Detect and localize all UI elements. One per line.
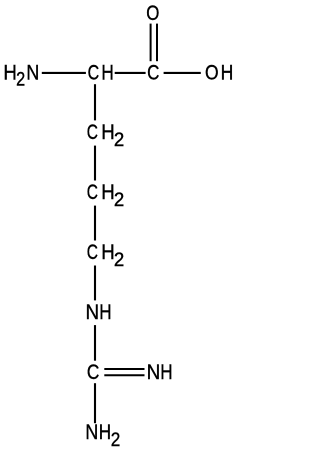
svg-text:C: C — [87, 120, 98, 144]
svg-text:C: C — [87, 180, 98, 204]
wire CH2-NH — [94, 266, 96, 301]
svg-text:H: H — [101, 181, 114, 205]
svg-text:O: O — [205, 61, 219, 85]
svg-text:2: 2 — [16, 68, 25, 89]
svg-text:2: 2 — [111, 429, 121, 450]
svg-text:H: H — [3, 61, 16, 85]
wire CH-C — [115, 72, 146, 74]
svg-text:H: H — [99, 300, 111, 324]
svg-text:N: N — [85, 421, 98, 445]
svg-text:2: 2 — [114, 189, 124, 210]
wire CH2-CH2 — [94, 146, 96, 181]
wire CH-CH2 — [94, 84, 96, 120]
svg-text:H: H — [160, 360, 172, 384]
svg-text:H: H — [221, 61, 234, 85]
wire C-NH2 — [94, 383, 96, 423]
wire NH-C — [94, 325, 96, 361]
double bond C=O — [150, 24, 152, 62]
double bond C=NH — [104, 368, 144, 370]
svg-text:N: N — [26, 61, 39, 85]
wire CH2-CH2 — [94, 206, 96, 241]
svg-text:H: H — [101, 61, 113, 85]
svg-text:N: N — [86, 301, 100, 324]
svg-text:C: C — [147, 61, 159, 85]
svg-text:2: 2 — [114, 249, 124, 270]
svg-text:H: H — [99, 420, 111, 444]
wire C-OH — [164, 72, 201, 74]
wire H2N-CH — [42, 72, 86, 74]
svg-text:C: C — [87, 240, 98, 264]
svg-text:H: H — [101, 121, 114, 145]
svg-text:C: C — [88, 61, 100, 85]
svg-text:N: N — [147, 361, 161, 384]
svg-text:O: O — [146, 2, 159, 25]
svg-text:H: H — [101, 241, 114, 265]
svg-text:2: 2 — [114, 129, 124, 150]
svg-text:C: C — [87, 360, 99, 384]
